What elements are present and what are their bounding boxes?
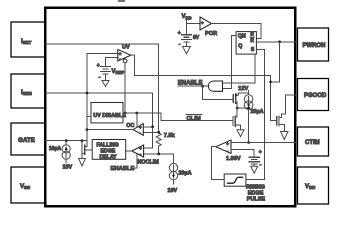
svg-text:PWRON: PWRON [303,43,326,49]
svg-text:20µA: 20µA [179,171,192,177]
svg-text:ENABLE: ENABLE [111,166,135,172]
wire CTIM net [231,142,297,144]
wire ISET net horizontal and down to resistor [45,44,158,133]
wire OC plus tap [143,126,152,128]
IC outline main box [45,8,295,207]
svg-text:+: + [259,150,262,156]
op-amp CTIM comparator [216,140,231,154]
svg-text:20µA: 20µA [251,109,264,115]
node UVD riser junction [124,112,127,115]
node OC minus [157,131,160,134]
current source I3 20uA lower [168,163,192,193]
svg-text:QN: QN [238,33,246,39]
node OC plus [151,125,154,128]
pin PWRON box [298,28,329,61]
node GATE to MOSFET gate [81,139,84,142]
current source I1 20uA upper [244,93,263,142]
wire QN output down to AND lower input [223,36,237,89]
svg-text:VREF: VREF [112,69,125,75]
battery VREF [97,58,125,81]
transistor Q3 NMOS gate clamp [82,141,92,159]
wire CLIM net [123,113,233,120]
svg-text:18V: 18V [168,188,178,194]
box RISING EDGE PULSE [224,174,265,202]
svg-text:POR: POR [205,31,217,37]
node ENABLE tap to PMOS gate [201,85,204,88]
svg-text:+: + [139,125,142,130]
svg-text:18V: 18V [63,164,73,170]
ground under 8V battery [183,47,191,54]
svg-text:CTIM: CTIM [305,140,320,146]
svg-text:R: R [250,32,254,38]
svg-text:+: + [139,146,142,151]
svg-text:+: + [97,63,100,69]
wire UV output to S bus [131,55,277,121]
box FALLING EDGE DELAY [92,140,126,161]
svg-text:1.86V: 1.86V [226,156,241,162]
wire PGOOD net [281,95,296,117]
wire POR output to FF R input [212,24,261,39]
svg-text:Q: Q [238,44,242,50]
node 20uA to CTIM [247,141,250,144]
pin GATE box [11,123,45,155]
transistor Q1 PMOS 12V switch [233,93,238,104]
ground under Q3 [79,159,86,167]
ground under Q4 [281,132,288,140]
svg-text:GATE: GATE [18,137,35,144]
box UV DISABLE [91,103,126,123]
pin PGOOD box [298,79,329,111]
top edge text fragment [118,0,125,2]
wire Q output down to AND upper input [223,54,255,83]
wire UVD down to OC top [136,113,138,127]
flip-flop U1 SR latch [236,32,256,54]
node GATE to 10uA [65,139,68,142]
pin ISET box [11,22,45,57]
wire OC minus tap [143,131,158,133]
wire NOCLIM output to falling edge delay [126,150,132,152]
svg-text:8V: 8V [193,35,200,41]
wire ENABLE tap down to PMOS gate [203,86,234,99]
svg-text:+: + [178,31,181,37]
svg-text:UV DISABLE: UV DISABLE [93,113,126,119]
node ISEN/UV riser [86,92,89,95]
wire GATE net [45,140,87,142]
wire NOCLIM plus stub [144,147,153,149]
svg-text:PULSE: PULSE [247,196,266,202]
op-amp NOCLIM comparator [132,145,159,165]
svg-text:12V: 12V [238,86,248,92]
node drain tie [236,107,239,110]
svg-text:ENABLE: ENABLE [178,80,203,86]
svg-text:R: R [250,38,254,44]
transistor Q4 NMOS PGOOD pulldown [277,116,285,131]
wire FF S area down to CTIM and pulse box [246,50,265,180]
transistor Q2 NMOS CLIM pulldown [233,104,241,130]
wire OC output to left junction [87,129,133,131]
op-amp UV comparator [118,45,131,62]
svg-text:+: + [226,142,229,147]
battery 1.86V [226,150,262,168]
ground under Q2 [237,130,244,137]
wire lower enable stub to NOCLIM [132,154,138,168]
wire UV disable riser to UV comparator [123,59,127,63]
battery 8V [178,31,200,48]
op-amp OC comparator [126,123,143,136]
svg-text:UV: UV [122,45,130,51]
current source I2 10uA gate pullup [49,141,72,171]
pin CTIM box [298,127,329,156]
svg-text:-: - [99,75,101,81]
wire NOCLIM minus row to lower current source [144,154,174,164]
wire PWRON node down to PGOOD pulldown gate [271,42,280,82]
node UV disable to OC tap [135,112,138,115]
wire VDD label to POR and battery [187,20,201,35]
wire CTIM comp output to pulse box [212,147,225,180]
svg-text:7.5k: 7.5k [164,133,176,139]
node PWRON junction [278,40,281,43]
wire ISEN net horizontal and down [45,93,152,148]
pin VSS box [11,167,45,203]
AND gate (facing left) [208,81,222,91]
svg-text:DELAY: DELAY [100,155,118,161]
wire CTIM comp minus to battery node [231,150,254,158]
svg-text:OC: OC [126,123,134,129]
pin VDD box [298,167,329,204]
ground under 1.86V battery [251,166,258,173]
node bus/PWRON junction [269,81,272,84]
wire UVD input stub [87,116,91,118]
svg-text:CLIM: CLIM [187,116,201,122]
node OC output junction [86,128,89,131]
wire FF to PWRON [256,41,296,43]
node resistor bottom [157,153,160,156]
ground under VREF [102,79,109,87]
wire drain node to 20uA line [237,107,248,109]
wire ISET below resistor to 20uA pulldown [158,146,160,154]
op-amp POR [200,17,217,37]
pin ISEN box [11,74,45,108]
svg-text:+: + [201,20,204,25]
resistor 7.5k [156,133,161,146]
node CLIM label [186,115,202,122]
svg-text:PGOOD: PGOOD [304,93,327,99]
wire UV plus riser from ISEN [87,54,118,146]
svg-text:NOCLIM: NOCLIM [138,159,160,165]
svg-text:10µA: 10µA [49,146,61,152]
